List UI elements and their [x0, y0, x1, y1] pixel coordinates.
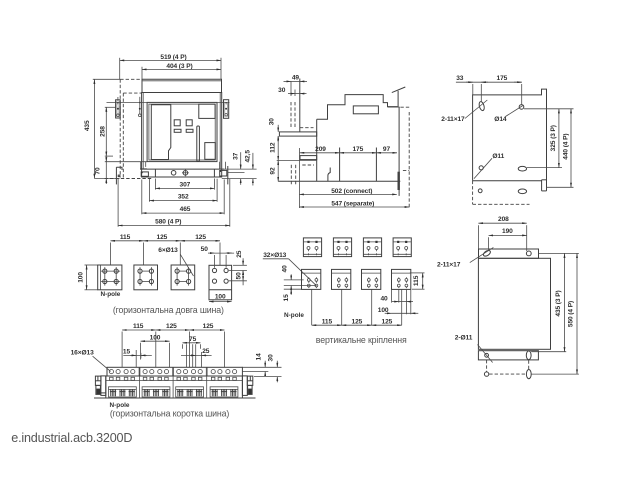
svg-text:125: 125	[352, 318, 363, 325]
svg-text:208: 208	[498, 216, 509, 223]
svg-text:e.industrial.acb.3200D: e.industrial.acb.3200D	[11, 431, 132, 445]
svg-text:2-Ø11: 2-Ø11	[455, 335, 473, 342]
svg-text:6×Ø13: 6×Ø13	[158, 247, 178, 254]
svg-text:115: 115	[133, 323, 144, 330]
svg-text:40: 40	[380, 296, 388, 303]
svg-text:25: 25	[202, 348, 210, 355]
svg-text:125: 125	[166, 323, 177, 330]
svg-text:325 (3 P): 325 (3 P)	[550, 125, 557, 151]
svg-text:15: 15	[283, 294, 290, 302]
svg-text:(горизонтальна коротка шина): (горизонтальна коротка шина)	[110, 408, 230, 418]
svg-text:50: 50	[201, 246, 209, 253]
svg-text:16×Ø13: 16×Ø13	[71, 350, 94, 357]
svg-text:14: 14	[256, 353, 263, 361]
svg-text:Ø14: Ø14	[494, 116, 507, 123]
svg-text:100: 100	[78, 272, 85, 283]
svg-text:70: 70	[94, 167, 101, 175]
svg-text:30: 30	[267, 354, 274, 362]
svg-text:40: 40	[282, 265, 289, 273]
svg-text:25: 25	[236, 250, 243, 258]
svg-text:42,5: 42,5	[245, 150, 252, 163]
svg-text:175: 175	[497, 75, 508, 82]
svg-text:125: 125	[195, 234, 206, 241]
svg-text:33: 33	[456, 75, 464, 82]
svg-text:92: 92	[269, 167, 276, 175]
svg-text:404 (3 P): 404 (3 P)	[166, 63, 192, 70]
svg-text:112: 112	[269, 142, 276, 153]
svg-text:2-11×17: 2-11×17	[441, 116, 465, 123]
svg-text:175: 175	[352, 146, 363, 153]
svg-text:97: 97	[383, 146, 391, 153]
svg-text:125: 125	[382, 318, 393, 325]
svg-text:100: 100	[378, 307, 389, 314]
svg-text:N-pole: N-pole	[284, 312, 304, 319]
svg-text:115: 115	[413, 275, 420, 286]
svg-text:190: 190	[502, 228, 513, 235]
svg-text:209: 209	[315, 146, 326, 153]
svg-text:Ø11: Ø11	[492, 153, 504, 160]
svg-text:465: 465	[180, 206, 191, 213]
svg-text:37: 37	[233, 152, 240, 160]
svg-text:2-11×17: 2-11×17	[437, 261, 461, 268]
svg-text:30: 30	[278, 87, 286, 94]
svg-text:125: 125	[157, 234, 168, 241]
svg-text:N-pole: N-pole	[100, 291, 120, 298]
svg-text:15: 15	[123, 348, 131, 355]
svg-text:49: 49	[292, 74, 300, 81]
svg-text:30: 30	[269, 118, 276, 126]
svg-text:125: 125	[203, 323, 214, 330]
svg-text:550 (4 P): 550 (4 P)	[567, 301, 574, 327]
svg-text:50: 50	[236, 272, 243, 280]
svg-text:258: 258	[99, 126, 106, 137]
svg-text:вертикальне кріплення: вертикальне кріплення	[316, 335, 407, 345]
svg-text:502 (connect): 502 (connect)	[331, 188, 372, 195]
svg-text:519 (4 P): 519 (4 P)	[160, 54, 186, 61]
svg-text:435 (3 P): 435 (3 P)	[555, 290, 562, 316]
svg-text:440 (4 P): 440 (4 P)	[562, 133, 569, 159]
svg-text:(горизонтальна довга шина): (горизонтальна довга шина)	[113, 305, 224, 315]
svg-text:32×Ø13: 32×Ø13	[263, 252, 286, 259]
svg-text:352: 352	[178, 194, 189, 201]
svg-text:580 (4 P): 580 (4 P)	[155, 219, 181, 226]
svg-text:115: 115	[322, 318, 333, 325]
svg-text:435: 435	[84, 120, 91, 131]
svg-text:115: 115	[120, 234, 131, 241]
svg-text:100: 100	[150, 334, 161, 341]
svg-text:75: 75	[189, 336, 197, 343]
svg-text:307: 307	[180, 181, 191, 188]
svg-text:100: 100	[215, 294, 226, 301]
svg-text:547 (separate): 547 (separate)	[331, 200, 374, 207]
